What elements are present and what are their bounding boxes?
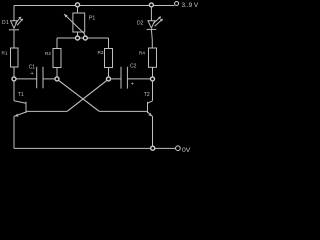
svg-text:T2: T2 — [144, 92, 150, 98]
LED D1 — [9, 17, 23, 30]
svg-text:T1: T1 — [18, 92, 24, 98]
LED D2 — [147, 16, 163, 29]
wire P1 bottom to bus — [77, 32, 79, 38]
node A collector T1 junction — [12, 77, 16, 81]
capacitor C1 — [37, 67, 43, 89]
wire base T1 horizontal — [26, 110, 67, 112]
node B junction — [55, 77, 59, 81]
svg-text:R2: R2 — [45, 51, 51, 56]
node P1 wiper on bus — [83, 36, 87, 40]
resistor R1 — [11, 48, 19, 67]
terminal positive supply — [175, 2, 179, 6]
node C junction — [107, 77, 111, 81]
node P1 bottom on bus — [76, 36, 80, 40]
resistor R3 — [105, 49, 113, 68]
svg-text:P1: P1 — [89, 16, 95, 22]
svg-text:D1: D1 — [2, 20, 9, 26]
wire timing bus to R3 — [108, 38, 110, 49]
svg-text:R4: R4 — [139, 51, 145, 56]
resistor R2 — [53, 49, 61, 68]
capacitor C2 — [121, 67, 127, 89]
node on rail for right branch — [149, 3, 153, 7]
svg-text:+: + — [31, 71, 34, 77]
resistor R4 — [149, 48, 157, 67]
wire node A to C1 — [16, 78, 37, 80]
terminal ground — [176, 146, 181, 151]
svg-text:0V: 0V — [182, 147, 191, 154]
wire T2 emitter to bottom rail — [152, 116, 154, 148]
wire R3 to node C — [108, 68, 110, 77]
wire cross diagonal node B to T2 base — [57, 79, 99, 111]
svg-text:C1: C1 — [29, 64, 36, 70]
wire rail to P1 — [77, 7, 79, 13]
potentiometer P1 — [64, 13, 85, 37]
wire top supply rail — [14, 5, 175, 7]
wire node C to C2 — [111, 78, 121, 80]
node E emitter T2 on ground rail — [151, 146, 155, 150]
node on rail for P1 — [76, 3, 80, 7]
svg-text:R3: R3 — [98, 50, 104, 55]
svg-text:+: + — [131, 82, 134, 88]
transistor T1 — [14, 101, 26, 117]
wire rail to D2 — [150, 7, 152, 21]
wire bottom ground rail — [14, 147, 176, 149]
svg-text:R1: R1 — [2, 51, 8, 56]
wire base T2 horizontal — [99, 110, 147, 112]
wire timing bus horizontal — [57, 37, 109, 39]
wire C1 to node B — [43, 78, 57, 80]
wire T1 emitter to bottom rail — [13, 116, 15, 148]
wire left branch drop from rail — [13, 6, 15, 21]
svg-text:C2: C2 — [130, 63, 137, 69]
node D collector T2 junction — [151, 77, 155, 81]
wire D2 cathode to R4 — [150, 29, 153, 48]
wire R2 to node B — [56, 68, 58, 77]
svg-text:D2: D2 — [137, 20, 144, 26]
svg-text:3..9 V: 3..9 V — [182, 2, 199, 9]
wire C2 to node D — [127, 78, 152, 80]
wire D1 cathode to R1 — [13, 30, 15, 48]
wire R4 to node D — [152, 67, 154, 101]
wire timing bus to R2 — [56, 38, 58, 49]
wire cross diagonal node C to T1 base — [67, 79, 108, 111]
wire R1 to node A — [13, 67, 15, 101]
transistor T2 — [148, 101, 153, 117]
